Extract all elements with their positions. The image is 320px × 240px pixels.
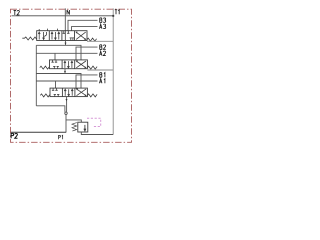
wire P1 riser bbox=[65, 115, 67, 133]
valve V1 cell symbols bbox=[38, 31, 85, 41]
arrowhead bypass V2 bbox=[64, 71, 66, 73]
port label P1 bbox=[59, 135, 63, 139]
spring V2 right bbox=[87, 66, 97, 69]
port label T2 bbox=[14, 10, 20, 15]
spring V1 right bbox=[87, 38, 97, 41]
arrowhead bypass V1 bbox=[65, 43, 67, 45]
wire relief drain bbox=[81, 132, 113, 135]
port label B3 bbox=[100, 18, 106, 23]
wire port B2 bbox=[76, 47, 98, 60]
wire V2 tank branch bbox=[87, 69, 113, 71]
wire T1 right vertical return bbox=[112, 8, 114, 134]
wire V3 outlet down bbox=[66, 97, 68, 112]
spring V3 left bbox=[40, 94, 50, 97]
enclosure dash-dot border (valve body boundary) bbox=[11, 9, 132, 142]
wire V1 tank branch bbox=[87, 40, 113, 42]
pilot line dashed bbox=[87, 118, 101, 126]
wire port B3 bbox=[68, 20, 98, 30]
port label P2 bbox=[11, 133, 17, 138]
port label A2 bbox=[99, 51, 105, 56]
wire bottom gallery bbox=[36, 106, 65, 112]
valve V2 cell symbols bbox=[51, 60, 86, 69]
port label A1 bbox=[99, 79, 104, 84]
wire P2 inlet line bbox=[11, 131, 66, 133]
valve V3 cell symbols bbox=[52, 88, 86, 97]
spring relief RV1 bbox=[72, 123, 77, 131]
valve V3 spool body bbox=[50, 88, 87, 97]
arrowhead outlet V3 bbox=[66, 99, 68, 101]
wire T2-T1 tank line bbox=[12, 15, 114, 17]
relief valve RV1 body bbox=[78, 122, 88, 132]
valve V1 spool body bbox=[37, 31, 87, 41]
wire port A2 and feed bbox=[36, 53, 97, 60]
wire V2 bypass down bbox=[36, 69, 81, 88]
valve V2 spool body bbox=[50, 60, 88, 69]
wire N inlet vertical bbox=[64, 8, 66, 30]
port label T1 bbox=[115, 10, 119, 15]
spring V2 left bbox=[40, 66, 50, 69]
wire port B1 bbox=[76, 75, 98, 88]
port label N bbox=[67, 10, 69, 15]
port label A3 bbox=[99, 24, 105, 29]
wire port A1 and feed bbox=[36, 81, 97, 88]
spring V3 right bbox=[87, 94, 97, 97]
spring V1 left bbox=[22, 37, 36, 40]
wire V1 bypass down bbox=[36, 41, 81, 60]
wire relief feed bbox=[66, 120, 81, 122]
wire port A3 bbox=[72, 27, 98, 31]
node T junction bbox=[112, 15, 114, 17]
node inlet junction circle bbox=[65, 112, 67, 114]
wire left gallery vertical bbox=[35, 45, 37, 106]
port label B1 bbox=[100, 73, 105, 78]
port label B2 bbox=[100, 45, 106, 50]
valve V1 top port stubs bbox=[39, 29, 57, 31]
relief valve RV1 arrow bbox=[84, 125, 86, 131]
